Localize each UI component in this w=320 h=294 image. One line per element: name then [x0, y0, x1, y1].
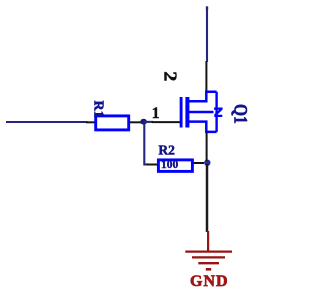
wire branch down to R2	[144, 122, 148, 165]
resistor R1 pin 2 (right)	[130, 121, 142, 123]
ground	[185, 231, 232, 269]
wire junction to gate	[144, 121, 153, 123]
svg-text:R1: R1	[91, 101, 106, 118]
svg-text:100: 100	[161, 159, 179, 171]
transistor Q1 pin 2 (drain)	[205, 61, 207, 92]
transistor Q1 pin 3 (source)	[206, 133, 208, 162]
svg-text:1: 1	[152, 105, 160, 122]
svg-text:R2: R2	[158, 142, 175, 157]
junction node source	[204, 160, 210, 166]
wire source to ground	[206, 164, 209, 232]
resistor R2 body	[158, 160, 192, 172]
wire top vertical (drain net)	[206, 6, 208, 10]
resistor R2 pin 1 (left)	[147, 164, 158, 166]
svg-text:GND: GND	[190, 273, 229, 290]
transistor Q1 (MOSFET N)	[181, 92, 223, 132]
junction node gate	[140, 119, 147, 125]
resistor R2 pin 2 (right)	[194, 162, 205, 164]
resistor R1 body	[96, 116, 129, 130]
transistor Q1 pin 1 (gate)	[152, 121, 180, 123]
wire input net left horizontal	[6, 121, 88, 123]
svg-text:2: 2	[160, 71, 180, 81]
resistor R1 pin 1 (left)	[86, 121, 95, 123]
svg-text:Q1: Q1	[230, 104, 252, 124]
